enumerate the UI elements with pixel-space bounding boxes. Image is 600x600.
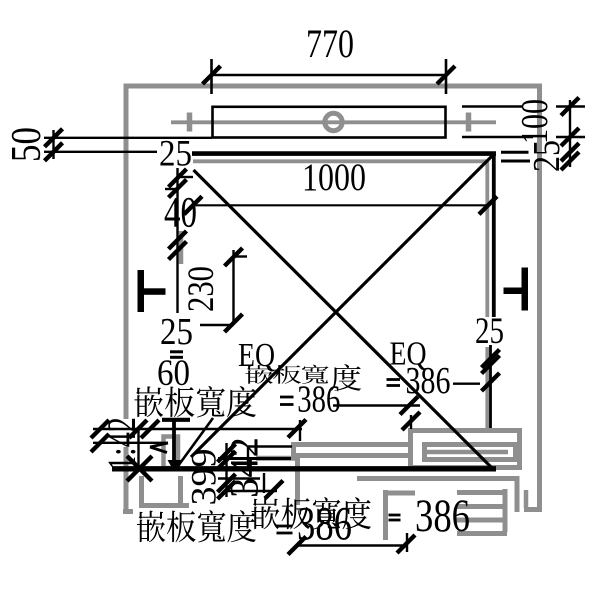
svg-text:100: 100 (514, 99, 556, 144)
svg-text:230: 230 (181, 266, 222, 312)
svg-text:25: 25 (475, 311, 504, 352)
svg-text:25: 25 (526, 140, 568, 172)
svg-text:342: 342 (222, 437, 267, 498)
svg-text:399: 399 (184, 449, 224, 506)
svg-text:386: 386 (415, 490, 470, 542)
svg-text:386: 386 (406, 360, 451, 402)
svg-text:25: 25 (159, 134, 192, 175)
svg-text:60: 60 (157, 353, 190, 394)
svg-text:40: 40 (164, 190, 197, 237)
svg-text:50: 50 (4, 127, 50, 162)
svg-text:25: 25 (160, 311, 193, 353)
svg-text:1000: 1000 (302, 156, 366, 199)
svg-text:1:42: 1:42 (99, 417, 144, 471)
svg-text:770: 770 (306, 21, 354, 66)
